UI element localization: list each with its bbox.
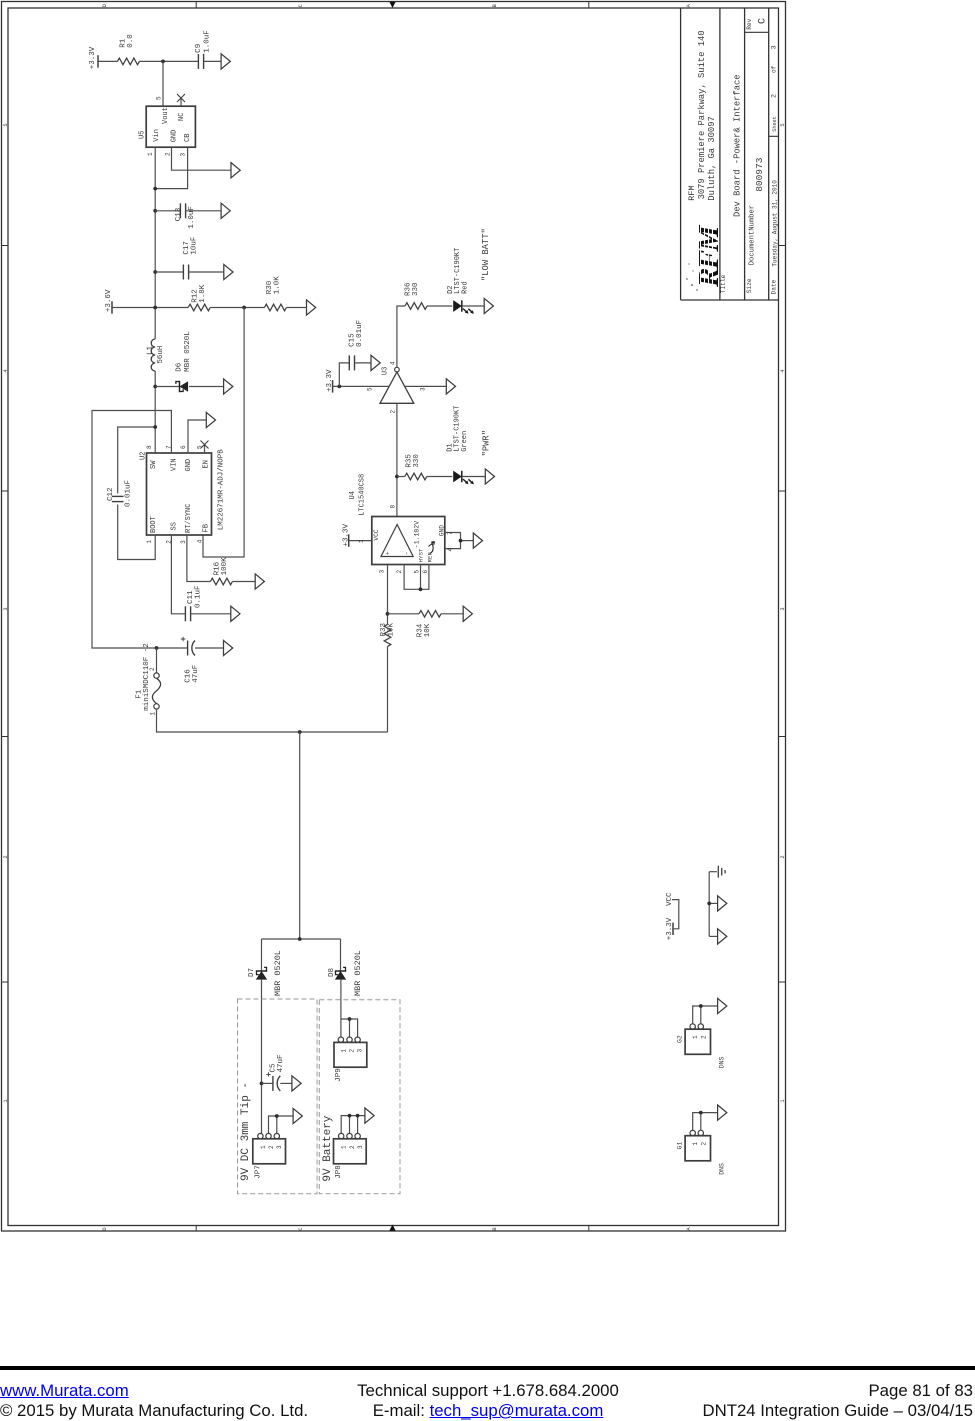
svg-text:SS: SS <box>170 522 178 530</box>
wire R35 to D1 <box>427 476 453 478</box>
footer right column <box>702 1381 973 1421</box>
node C17 tap <box>153 270 157 274</box>
wire R33 bottom to battery feed <box>387 646 389 732</box>
wire to ground 1 <box>709 902 717 904</box>
svg-text:3: 3 <box>180 153 187 157</box>
svg-text:8: 8 <box>390 505 397 509</box>
capacitor C11 <box>184 606 186 621</box>
svg-text:NC: NC <box>178 113 186 121</box>
wire JP9 pins tie <box>341 1019 358 1037</box>
transistor U2 (buck regulator LM22671) <box>147 453 212 535</box>
svg-text:1: 1 <box>692 1142 699 1146</box>
svg-text:1: 1 <box>146 540 153 544</box>
svg-text:6: 6 <box>422 570 429 574</box>
svg-text:Duluth, Ga 30097: Duluth, Ga 30097 <box>707 116 717 200</box>
resistor R1 <box>117 58 139 65</box>
ground <box>231 606 240 621</box>
node JP8 tie a <box>348 1114 352 1118</box>
svg-text:1: 1 <box>147 152 154 156</box>
ground <box>365 1108 374 1123</box>
svg-text:2: 2 <box>396 570 403 574</box>
ground <box>293 1108 302 1123</box>
svg-text:3: 3 <box>420 387 427 391</box>
wire U4 GND pins to ground <box>445 533 461 549</box>
svg-text:Tuesday, August 31, 2010: Tuesday, August 31, 2010 <box>771 180 778 267</box>
wire C13 to ground <box>186 210 222 212</box>
svg-text:C: C <box>758 18 769 24</box>
node rail junction <box>298 937 302 941</box>
svg-text:4: 4 <box>3 369 9 372</box>
svg-text:RFM: RFM <box>687 185 697 200</box>
svg-text:1.8K: 1.8K <box>199 284 207 303</box>
capacitor C17 <box>182 265 184 280</box>
LED D1 <box>453 471 462 483</box>
resistor R36 <box>405 303 427 310</box>
svg-text:G2: G2 <box>676 1035 683 1043</box>
resistor R30 <box>264 304 286 311</box>
connector G1 <box>690 1130 695 1135</box>
node JP8 tie b <box>356 1114 360 1118</box>
node hyst tie <box>419 587 423 591</box>
svg-text:3: 3 <box>780 607 786 610</box>
svg-text:G1: G1 <box>676 1142 683 1150</box>
svg-text:1: 1 <box>341 1145 348 1149</box>
node pin3 junction <box>153 187 157 191</box>
svg-text:7: 7 <box>447 531 454 535</box>
wire R36 to D2 <box>427 305 452 307</box>
svg-text:4: 4 <box>780 369 786 372</box>
svg-text:1.0K: 1.0K <box>273 276 281 295</box>
svg-text:D: D <box>102 1227 108 1230</box>
ground <box>224 640 233 655</box>
svg-text:6: 6 <box>180 445 187 449</box>
svg-text:+3.3V: +3.3V <box>326 369 334 392</box>
svg-text:0.01uF: 0.01uF <box>125 480 133 507</box>
wire Vout node to U5 pin 5 <box>162 61 164 106</box>
node SW node <box>153 385 157 389</box>
svg-text:U3: U3 <box>382 367 390 375</box>
svg-text:-: - <box>403 551 410 555</box>
node C13 tap <box>153 209 157 213</box>
svg-text:JP8: JP8 <box>335 1165 343 1179</box>
svg-text:F1: F1 <box>135 689 143 699</box>
svg-text:2: 2 <box>700 1035 707 1039</box>
svg-text:VCC: VCC <box>373 529 380 540</box>
wire D6 to ground <box>189 386 224 388</box>
wire BOOT loop with C12 <box>118 505 156 560</box>
svg-text:D: D <box>102 4 108 7</box>
svg-text:"LOW BATT": "LOW BATT" <box>481 228 491 281</box>
svg-text:5: 5 <box>3 123 9 126</box>
wire U3 output to R36 <box>397 306 405 367</box>
resistor R34 <box>419 611 441 618</box>
svg-text:Red: Red <box>461 281 469 294</box>
svg-text:1: 1 <box>260 1145 267 1149</box>
svg-text:3: 3 <box>276 1145 283 1149</box>
svg-text:5: 5 <box>156 96 163 100</box>
svg-text:3: 3 <box>3 607 9 610</box>
svg-text:800973: 800973 <box>754 157 765 192</box>
svg-text:3: 3 <box>180 540 187 544</box>
ground <box>485 469 494 484</box>
wire G1 pins to ground <box>693 1113 718 1131</box>
zone ticks left edge <box>2 246 9 983</box>
svg-text:9V DC 3mm Tip -: 9V DC 3mm Tip - <box>240 1082 252 1181</box>
wire U5 pin3 loop to rail <box>155 147 187 188</box>
zone ticks right edge <box>779 246 786 983</box>
wire +3.6V to R12 <box>112 307 188 309</box>
capacitor C16 <box>187 641 189 656</box>
svg-text:Vout: Vout <box>162 107 170 124</box>
U2 EN pin stub with X <box>204 445 206 454</box>
ground <box>473 533 482 548</box>
svg-text:VIN: VIN <box>170 458 178 471</box>
wire R34 to ground <box>441 613 463 615</box>
svg-text:2: 2 <box>3 855 9 858</box>
svg-text:1: 1 <box>3 1099 9 1102</box>
capacitor C15 branch <box>339 363 349 387</box>
svg-text:0.01uF: 0.01uF <box>356 320 364 347</box>
svg-text:B: B <box>492 1227 498 1231</box>
op-amp U3 (inverter) <box>395 367 400 372</box>
svg-text:0.1uF: 0.1uF <box>195 585 203 608</box>
svg-text:BOOT: BOOT <box>150 516 158 533</box>
svg-text:"PWR": "PWR" <box>481 430 491 456</box>
wire JP7 pins tie to ground <box>269 1116 294 1133</box>
svg-text:C12: C12 <box>107 487 115 501</box>
svg-text:C13: C13 <box>175 207 183 221</box>
wire R12 to R30 <box>210 307 264 309</box>
resistor R35 <box>405 473 427 480</box>
ground <box>224 264 233 279</box>
diode D7 <box>256 970 267 972</box>
ground <box>446 379 455 394</box>
wire U2 GND pin to ground <box>188 420 206 453</box>
svg-text:+3.3V: +3.3V <box>342 523 350 546</box>
svg-text:DNS: DNS <box>719 1056 726 1068</box>
inductor L1 <box>151 339 155 371</box>
ground <box>484 298 493 313</box>
svg-text:DocumentNumber: DocumentNumber <box>748 205 756 265</box>
svg-text:RT/SYNC: RT/SYNC <box>185 504 193 533</box>
resistor R16 <box>210 578 232 585</box>
node U4 gnd tie <box>459 539 463 543</box>
wire JP8 pins tie to ground <box>341 1116 365 1134</box>
op-amp U4 (comparator LTC1540CS8) <box>372 517 445 565</box>
ground <box>371 355 380 370</box>
svg-text:JP7: JP7 <box>255 1165 263 1179</box>
wire C17 to ground <box>189 271 224 273</box>
centering mark bottom <box>389 1225 395 1231</box>
wire to C5 <box>262 1082 273 1084</box>
svg-text:HYST: HYST <box>418 548 425 562</box>
capacitor C15 <box>348 355 350 370</box>
wire R30 to ground <box>286 307 306 309</box>
svg-text:A: A <box>686 3 692 7</box>
wire U5 pin1 rail down <box>154 147 156 339</box>
wire VIN node to F1 <box>156 648 158 673</box>
sheet outer border <box>2 2 786 1232</box>
svg-text:GND: GND <box>171 130 179 143</box>
svg-text:1: 1 <box>150 712 157 716</box>
node rail junction <box>153 306 157 310</box>
svg-text:3079 Premiere Parkway, Suite 1: 3079 Premiere Parkway, Suite 140 <box>697 30 707 199</box>
wire C16 to ground <box>195 647 224 649</box>
wire C9 to ground <box>204 60 222 62</box>
svg-text:L1: L1 <box>146 345 154 355</box>
svg-text:MBR 0520L: MBR 0520L <box>353 950 363 996</box>
title block frame <box>681 8 779 300</box>
power symbol +3.3V <box>348 534 350 546</box>
svg-text:2: 2 <box>700 1142 707 1146</box>
wire U2 SS pin to C11 <box>171 535 185 614</box>
ground <box>718 1105 727 1120</box>
svg-text:4: 4 <box>197 539 204 543</box>
svg-text:of: of <box>770 65 777 73</box>
wire D8 to JP9 pin1 <box>340 980 342 1037</box>
ground <box>255 574 264 589</box>
wire node to R34 <box>388 613 420 615</box>
power symbol +3.6V <box>111 301 113 313</box>
svg-text:10K: 10K <box>387 622 395 636</box>
capacitor C12 <box>112 495 124 497</box>
svg-text:D8: D8 <box>328 968 336 977</box>
svg-text:2: 2 <box>780 855 786 858</box>
svg-text:LTC1540CS8: LTC1540CS8 <box>358 474 366 516</box>
wire rail to C13 <box>155 210 180 212</box>
svg-text:GND: GND <box>185 459 193 472</box>
wire battery rail <box>262 938 341 940</box>
connector JP9 <box>338 1037 343 1042</box>
svg-text:5: 5 <box>780 123 786 126</box>
svg-text:JP9: JP9 <box>335 1068 343 1082</box>
wire battery feed down <box>299 732 301 939</box>
svg-text:C: C <box>298 4 304 7</box>
svg-text:C9: C9 <box>195 44 203 53</box>
node JP9 tie <box>348 1017 352 1021</box>
svg-text:+3.3V: +3.3V <box>89 46 97 69</box>
svg-text:1.0uF: 1.0uF <box>188 206 196 229</box>
svg-text:1: 1 <box>692 1035 699 1039</box>
svg-text:MBR 0520L: MBR 0520L <box>184 331 192 372</box>
ground <box>718 896 727 911</box>
svg-text:VCC: VCC <box>666 892 674 906</box>
ground <box>224 379 233 394</box>
svg-text:A: A <box>686 1227 692 1231</box>
svg-text:SW: SW <box>150 460 158 469</box>
wire rail to C17 <box>155 271 183 273</box>
sheet inner border <box>8 8 779 1226</box>
svg-text:FB: FB <box>203 524 211 532</box>
wire VCC tie <box>672 900 679 929</box>
centering mark top <box>389 2 395 8</box>
dashed box 9V Battery <box>319 1000 400 1194</box>
svg-text:EN: EN <box>203 460 211 468</box>
wire U5 pin2 to ground <box>172 147 232 170</box>
LED D2 <box>453 300 462 312</box>
wire to ground 2 <box>709 935 717 937</box>
svg-text:2: 2 <box>165 152 172 156</box>
svg-text:U4: U4 <box>349 491 357 499</box>
op-amp U5 (LDO regulator box) <box>146 106 195 147</box>
svg-text:47uF: 47uF <box>192 665 200 683</box>
svg-text:2: 2 <box>349 1049 356 1053</box>
node JP7 tie <box>275 1114 279 1118</box>
dashed box 9V DC 3mm Tip <box>238 999 318 1194</box>
ground <box>221 54 230 69</box>
node G1 tie <box>699 1111 703 1115</box>
node gnd tie <box>707 902 711 906</box>
wire U3 right pin to ground <box>404 385 446 387</box>
svg-text:Size: Size <box>746 278 753 293</box>
svg-text:5: 5 <box>414 570 421 574</box>
svg-text:-1.182V: -1.182V <box>414 521 421 548</box>
svg-text:3: 3 <box>770 45 778 49</box>
svg-text:Rev: Rev <box>746 18 753 29</box>
ground <box>718 998 727 1013</box>
power symbol +3.3V <box>672 923 674 935</box>
wire C5 to ground <box>280 1082 292 1084</box>
node divider node <box>386 612 390 616</box>
wire rail to D7 <box>261 939 263 971</box>
wire D2 to ground <box>462 305 484 307</box>
diode D8 <box>335 970 346 972</box>
wire G2 pins to ground <box>693 1006 718 1024</box>
svg-text:4: 4 <box>447 548 454 552</box>
U4 internal reference arrow <box>429 542 435 554</box>
ground <box>292 1076 301 1091</box>
svg-text:1: 1 <box>340 1049 347 1053</box>
wire U2 RT/SYNC pin to R16 <box>187 535 211 582</box>
svg-text:10uF: 10uF <box>190 237 198 255</box>
wire U2 VIN loop <box>92 411 188 649</box>
wire ground tie <box>708 872 710 937</box>
svg-text:56uH: 56uH <box>157 346 165 364</box>
wire R1 to C9 <box>139 60 198 62</box>
svg-text:D7: D7 <box>248 968 256 977</box>
resistor R33 <box>384 624 391 646</box>
svg-text:B: B <box>492 3 498 7</box>
ground <box>718 929 727 944</box>
power symbol +3.3V <box>332 380 334 392</box>
power symbol +3.3V <box>97 55 99 67</box>
ground <box>307 300 316 315</box>
svg-text:330: 330 <box>413 454 421 468</box>
svg-text:U2: U2 <box>139 452 147 460</box>
svg-text:47uF: 47uF <box>277 1054 285 1072</box>
svg-text:TItle: TItle <box>720 274 727 293</box>
svg-text:4: 4 <box>389 361 396 365</box>
ground <box>221 203 230 218</box>
connector JP7 <box>258 1133 263 1138</box>
wire node to R35 <box>397 476 405 478</box>
wire +3.3V to R1 <box>98 60 117 62</box>
footer left column <box>0 1381 308 1421</box>
wire +3.3V to U4 VCC <box>349 540 372 542</box>
svg-text:Dev Board -Power& Interface: Dev Board -Power& Interface <box>733 74 743 217</box>
svg-text:5: 5 <box>367 387 374 391</box>
capacitor C13 <box>179 203 181 218</box>
node C5 tap <box>260 1082 264 1086</box>
svg-text:Date: Date <box>770 279 777 294</box>
resistor R12 <box>188 304 210 311</box>
svg-text:3: 3 <box>357 1049 364 1053</box>
svg-text:2: 2 <box>770 94 778 98</box>
svg-text:D6: D6 <box>176 362 184 372</box>
svg-text:U5: U5 <box>139 131 147 139</box>
no-connect X <box>177 94 185 102</box>
wire U4 pin3 to divider <box>387 565 389 625</box>
svg-text:Sheet: Sheet <box>772 116 778 132</box>
node VIN node <box>155 646 159 650</box>
svg-text:GND: GND <box>438 525 445 536</box>
footer rule <box>0 1366 975 1370</box>
node PWR node <box>395 475 399 479</box>
svg-text:LM22671MR-ADJ/NOPB: LM22671MR-ADJ/NOPB <box>217 449 225 531</box>
ground <box>231 163 240 178</box>
svg-text:C: C <box>298 1227 304 1230</box>
capacitor C5 <box>272 1076 274 1091</box>
diode D6 <box>179 381 181 392</box>
RFM logo <box>686 223 725 291</box>
wire D1 to ground <box>462 476 486 478</box>
ground <box>463 606 472 621</box>
svg-text:1: 1 <box>358 539 365 543</box>
node Vout node <box>161 60 165 64</box>
svg-text:2: 2 <box>349 1145 356 1149</box>
wire D7 to JP7 pin1 <box>261 980 263 1134</box>
zone ticks bottom edge <box>196 1226 589 1232</box>
wire L1 to SW node <box>154 371 156 453</box>
svg-text:1.0uF: 1.0uF <box>203 30 211 53</box>
svg-text:100K: 100K <box>221 557 229 576</box>
zone ticks top edge <box>196 2 589 9</box>
svg-text:2: 2 <box>390 410 397 414</box>
connector G2 <box>690 1024 695 1029</box>
node G2 tie <box>699 1004 703 1008</box>
capacitor C9 <box>197 54 199 69</box>
connector JP8 <box>339 1133 344 1138</box>
svg-text:+3.6V: +3.6V <box>105 289 113 312</box>
svg-text:8: 8 <box>146 445 153 449</box>
svg-text:1: 1 <box>780 1099 786 1102</box>
node U3 supply node <box>337 385 341 389</box>
wire U4 bottom pins tie <box>404 565 429 590</box>
wire R16 to ground <box>232 581 255 583</box>
footer center column <box>320 1381 656 1421</box>
no-connect X <box>201 441 209 449</box>
wire F1 to battery feed <box>157 709 388 732</box>
wire SW node to D6 <box>155 386 179 388</box>
U5 NC pin stub with X <box>180 98 182 107</box>
node FB node <box>242 306 246 310</box>
wire FB node to U2 pin4 <box>203 308 244 558</box>
svg-text:Vin: Vin <box>153 129 161 142</box>
svg-text:2: 2 <box>268 1145 275 1149</box>
svg-text:+: + <box>384 551 391 555</box>
svg-text:9V Battery: 9V Battery <box>322 1115 334 1181</box>
ground <box>206 412 215 427</box>
wire U3 input down to U4 out <box>396 403 398 516</box>
svg-text:DNS: DNS <box>719 1163 726 1175</box>
earth ground <box>717 866 719 878</box>
svg-text:+3.3V: +3.3V <box>666 917 674 940</box>
svg-text:330: 330 <box>412 282 420 296</box>
wire rail to D8 <box>340 939 342 971</box>
wire C11 to ground <box>191 613 231 615</box>
svg-text:MBR 0520L: MBR 0520L <box>273 950 283 996</box>
node battery feed junction <box>298 730 302 734</box>
